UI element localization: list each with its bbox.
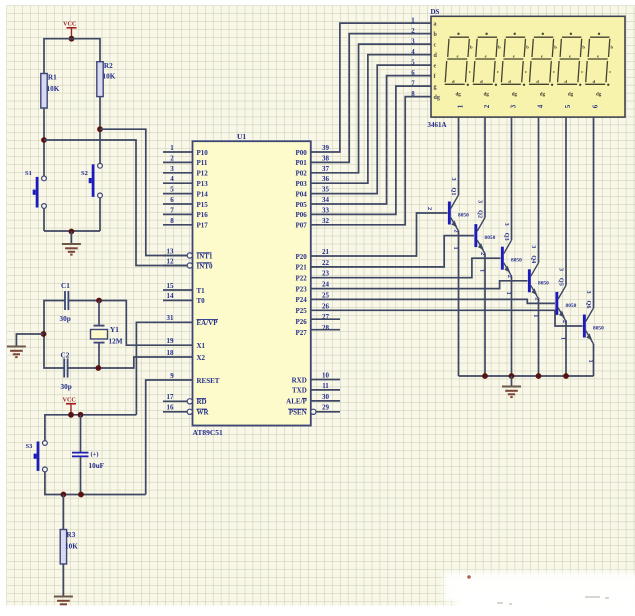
svg-text:8050: 8050 xyxy=(566,303,577,309)
svg-text:PSEN: PSEN xyxy=(289,409,307,417)
svg-text:6: 6 xyxy=(592,104,600,108)
wire P23 to Q4 base xyxy=(311,281,528,289)
svg-text:TXD: TXD xyxy=(292,387,307,395)
display digit 2 seven-segment glyph xyxy=(473,33,501,98)
junction dot switches ground node xyxy=(69,229,75,235)
IC U1 pin 9 RESET xyxy=(170,372,220,385)
svg-text:Q1: Q1 xyxy=(450,188,457,196)
svg-text:10K: 10K xyxy=(103,73,116,81)
svg-text:e: e xyxy=(569,54,571,59)
IC U1 pin 19 X1 xyxy=(167,337,206,350)
svg-text:P03: P03 xyxy=(296,180,308,188)
svg-text:39: 39 xyxy=(322,144,330,152)
wire P06 to display segment pin 7 xyxy=(311,86,431,214)
svg-text:d: d xyxy=(480,79,483,84)
svg-text:e: e xyxy=(457,54,459,59)
wire P01 to display segment pin 2 xyxy=(311,34,431,163)
display bottom common pins 1-6 rotated labels xyxy=(457,104,600,108)
svg-text:P13: P13 xyxy=(197,180,209,188)
junction dot emitter rail x=538.5 xyxy=(536,373,542,379)
svg-text:C1: C1 xyxy=(61,282,70,290)
svg-text:2: 2 xyxy=(426,207,433,210)
svg-text:29: 29 xyxy=(322,404,330,412)
wire VCC reset rail xyxy=(45,415,136,441)
svg-text:5: 5 xyxy=(564,104,572,108)
wire S2 bottom to ground rail xyxy=(99,198,101,231)
ground symbol left of crystal xyxy=(7,346,26,348)
svg-text:T0: T0 xyxy=(197,297,206,305)
svg-text:e: e xyxy=(434,63,437,69)
svg-text:b: b xyxy=(498,45,501,50)
wire P20 to Q1 base xyxy=(311,213,448,256)
svg-text:37: 37 xyxy=(322,165,330,173)
svg-text:b: b xyxy=(554,45,557,50)
IC U1 right pins P00-P07 xyxy=(296,144,330,230)
svg-text:P12: P12 xyxy=(197,170,209,178)
svg-text:30p: 30p xyxy=(60,315,71,323)
wire P22 to Q3 base xyxy=(311,258,501,278)
svg-text:4: 4 xyxy=(411,49,415,56)
svg-text:d: d xyxy=(564,79,567,84)
svg-text:17: 17 xyxy=(167,393,175,401)
wire RESET to bottom rail xyxy=(146,380,193,495)
svg-text:10: 10 xyxy=(322,372,330,380)
wire display pin 5 to Q5 collector xyxy=(565,117,567,285)
display DS 3461A body xyxy=(431,16,625,117)
svg-text:4: 4 xyxy=(170,175,174,183)
junction dot emitter rail x=566 xyxy=(563,373,569,379)
junction dot C3 bottom node xyxy=(78,492,84,498)
svg-text:R1: R1 xyxy=(48,74,57,82)
svg-text:c: c xyxy=(497,69,499,74)
wire display pin 2 to Q2 collector xyxy=(484,117,486,218)
svg-text:R3: R3 xyxy=(67,531,76,539)
wire Q1 emitter to ground rail xyxy=(458,231,460,376)
wire P24 to Q5 base xyxy=(311,299,555,303)
svg-text:P04: P04 xyxy=(296,190,308,198)
svg-text:14: 14 xyxy=(167,292,175,300)
wire P25 to Q6 base xyxy=(311,310,583,326)
svg-text:8050: 8050 xyxy=(593,326,604,332)
svg-text:Q5: Q5 xyxy=(558,278,565,286)
wire display pin 1 to Q1 collector xyxy=(458,117,460,195)
IC U1 right pins P20-P27 xyxy=(296,248,340,337)
wire Q2 emitter to ground rail xyxy=(484,254,486,376)
svg-text:c: c xyxy=(609,69,611,74)
svg-text:16: 16 xyxy=(167,404,175,412)
svg-text:P11: P11 xyxy=(197,159,208,167)
display digit 5 seven-segment glyph xyxy=(557,33,585,98)
wire rail to R3 xyxy=(62,495,64,530)
junction dot emitter rail x=511.5 xyxy=(509,373,515,379)
svg-text:2: 2 xyxy=(534,297,541,300)
svg-text:dg: dg xyxy=(596,93,602,98)
transistor Q4 8050 xyxy=(506,245,549,317)
svg-text:32: 32 xyxy=(322,217,330,225)
svg-text:AT89C51: AT89C51 xyxy=(193,428,224,437)
svg-text:c: c xyxy=(434,42,437,48)
svg-text:g: g xyxy=(434,84,437,90)
wire P21 to Q2 base xyxy=(311,236,474,267)
svg-text:Q4: Q4 xyxy=(530,255,537,263)
ground symbol under S1/S2 xyxy=(62,243,81,245)
wire Q4 emitter to ground rail xyxy=(538,299,540,376)
svg-text:b: b xyxy=(582,45,585,50)
svg-text:8050: 8050 xyxy=(485,235,496,241)
svg-text:Q3: Q3 xyxy=(503,233,510,241)
svg-text:S1: S1 xyxy=(25,170,32,177)
svg-text:8050: 8050 xyxy=(511,258,522,264)
display digit 6 seven-segment glyph xyxy=(585,33,613,98)
switch S1 xyxy=(42,176,47,181)
svg-text:3: 3 xyxy=(503,223,510,226)
svg-text:Q2: Q2 xyxy=(477,210,484,218)
svg-text:dg: dg xyxy=(456,93,462,98)
IC U1 pin 29 PSEN xyxy=(288,404,340,417)
svg-text:36: 36 xyxy=(322,175,330,183)
svg-text:b: b xyxy=(611,45,614,50)
svg-text:2: 2 xyxy=(170,154,174,162)
svg-text:22: 22 xyxy=(322,259,330,267)
svg-text:T1: T1 xyxy=(197,287,206,295)
svg-text:INT0: INT0 xyxy=(197,262,213,270)
IC U1 pin 10 RXD xyxy=(292,372,340,385)
IC U1 left pins P10-P17 xyxy=(163,144,208,230)
svg-text:21: 21 xyxy=(322,248,330,256)
svg-text:P16: P16 xyxy=(197,211,209,219)
svg-text:P10: P10 xyxy=(197,149,209,157)
svg-text:dg: dg xyxy=(568,93,574,98)
wire R1 bottom to S1 xyxy=(43,108,45,176)
wire stub rail to ground 4 xyxy=(511,376,513,386)
ground symbol under transistor rail xyxy=(502,386,521,388)
svg-text:R2: R2 xyxy=(104,62,113,70)
svg-text:P26: P26 xyxy=(296,318,308,326)
junction dot crystal bottom xyxy=(95,365,101,371)
wire switches ground rail xyxy=(44,230,100,232)
wire EA/VP to VCC rail xyxy=(136,322,192,415)
transistor Q6 8050 xyxy=(561,290,604,362)
wire node R2 to INT1 pin 13 xyxy=(100,129,187,255)
wire transistor emitter ground rail xyxy=(459,375,594,377)
svg-text:23: 23 xyxy=(322,270,330,278)
svg-text:c: c xyxy=(525,69,527,74)
svg-text:P14: P14 xyxy=(197,190,209,198)
svg-text:RD: RD xyxy=(197,398,207,406)
svg-text:30p: 30p xyxy=(61,383,72,391)
svg-text:Q6: Q6 xyxy=(585,301,592,309)
svg-text:e: e xyxy=(597,54,599,59)
junction dot C3 top node xyxy=(78,412,84,418)
svg-text:RXD: RXD xyxy=(292,376,307,384)
junction dot R3 node xyxy=(61,492,67,498)
svg-text:P07: P07 xyxy=(296,222,308,230)
svg-text:3: 3 xyxy=(477,200,484,203)
svg-text:2: 2 xyxy=(411,28,415,35)
junction dot crystal top xyxy=(96,298,102,304)
svg-text:X1: X1 xyxy=(197,342,206,350)
transistor Q5 8050 xyxy=(534,268,577,340)
svg-text:X2: X2 xyxy=(197,354,206,362)
svg-text:1: 1 xyxy=(170,144,174,152)
IC U1 pin 13 INT1 xyxy=(163,247,213,260)
svg-text:4: 4 xyxy=(537,104,545,108)
svg-text:10K: 10K xyxy=(65,543,78,551)
capacitor C3 10uF xyxy=(80,415,82,452)
capacitor C2 xyxy=(63,359,65,378)
svg-text:P05: P05 xyxy=(296,201,308,209)
junction dot VCC2 node xyxy=(68,412,74,418)
svg-text:P06: P06 xyxy=(296,211,308,219)
wire display pin 6 to Q6 collector xyxy=(593,117,595,308)
svg-text:1: 1 xyxy=(457,104,465,108)
wire node R1 to INT0 pin 12 xyxy=(44,140,187,266)
svg-text:e: e xyxy=(485,54,487,59)
svg-text:12M: 12M xyxy=(109,338,123,346)
display digit 3 seven-segment glyph xyxy=(501,33,529,98)
svg-text:S3: S3 xyxy=(26,443,34,450)
wire P05 to display segment pin 6 xyxy=(311,76,431,204)
display digit 4 seven-segment glyph xyxy=(529,33,557,98)
svg-text:38: 38 xyxy=(322,154,330,162)
wire Q3 emitter to ground rail xyxy=(511,276,513,376)
svg-text:13: 13 xyxy=(167,247,175,255)
svg-text:34: 34 xyxy=(322,196,330,204)
svg-text:S2: S2 xyxy=(81,170,88,177)
wire C2 to crystal bottom / X2 xyxy=(68,357,193,368)
svg-text:P02: P02 xyxy=(296,170,308,178)
junction dot crystal-gnd node xyxy=(41,331,47,337)
svg-text:8: 8 xyxy=(411,91,415,98)
display left pin numbers and segment letters xyxy=(411,17,440,101)
svg-text:P20: P20 xyxy=(296,253,308,261)
svg-text:3: 3 xyxy=(411,38,415,45)
capacitor C1 xyxy=(64,291,66,310)
svg-text:P00: P00 xyxy=(296,149,308,157)
svg-text:C2: C2 xyxy=(61,352,70,360)
wire VCC rail to R1 and R2 xyxy=(44,39,100,74)
svg-text:6: 6 xyxy=(170,196,174,204)
resistor R2 xyxy=(97,62,103,97)
svg-text:P24: P24 xyxy=(296,296,308,304)
svg-text:c: c xyxy=(553,69,555,74)
svg-text:8050: 8050 xyxy=(458,213,469,219)
svg-text:P22: P22 xyxy=(296,275,308,283)
svg-text:P17: P17 xyxy=(197,222,209,230)
svg-text:10K: 10K xyxy=(47,85,60,93)
svg-text:(+): (+) xyxy=(91,451,99,458)
wire Q5 emitter to ground rail xyxy=(565,321,567,376)
svg-text:RESET: RESET xyxy=(197,377,220,385)
wire crystal left vertical / top node xyxy=(44,301,65,369)
switch S3 xyxy=(43,441,48,446)
IC U1 pin 17 RD xyxy=(163,393,207,406)
svg-text:3: 3 xyxy=(558,268,565,271)
svg-text:2: 2 xyxy=(506,275,513,278)
wire P07 to display segment pin 8 xyxy=(311,97,431,225)
svg-text:d: d xyxy=(536,79,539,84)
svg-text:11: 11 xyxy=(322,382,329,390)
svg-text:10uF: 10uF xyxy=(89,462,105,470)
junction dot emitter rail x=485 xyxy=(482,373,488,379)
IC U1 pin 14 T0 xyxy=(163,292,205,305)
svg-text:2: 2 xyxy=(561,320,568,323)
svg-text:30: 30 xyxy=(322,393,330,401)
IC U1 pin 16 WR xyxy=(163,404,210,417)
svg-text:P21: P21 xyxy=(296,264,308,272)
transistor Q2 8050 xyxy=(453,200,496,272)
switch S2 xyxy=(98,163,103,168)
wire stub to ground 1 xyxy=(70,232,72,244)
wire P00 to display segment pin 1 xyxy=(311,23,431,152)
svg-text:26: 26 xyxy=(322,302,330,310)
wire R3 to ground 3 xyxy=(62,564,64,596)
svg-text:ALE/P: ALE/P xyxy=(286,398,307,406)
svg-text:3: 3 xyxy=(450,177,457,180)
IC U1 pin 30 ALE/P xyxy=(286,393,340,406)
svg-text:2: 2 xyxy=(483,104,491,108)
transistor Q3 8050 xyxy=(479,223,522,295)
svg-text:35: 35 xyxy=(322,186,330,194)
svg-text:28: 28 xyxy=(322,324,330,332)
svg-text:19: 19 xyxy=(167,337,175,345)
wire R2 bottom to S2 xyxy=(99,97,101,164)
svg-text:EA/VP: EA/VP xyxy=(197,319,219,327)
junction dot VCC node xyxy=(69,36,75,42)
svg-text:5: 5 xyxy=(170,186,174,194)
ground symbol under R3 xyxy=(54,596,73,598)
transistor Q1 8050 xyxy=(426,177,469,249)
svg-text:U1: U1 xyxy=(237,132,246,141)
IC U1 pin 11 TXD xyxy=(292,382,340,395)
junction dot node R1/S1/INT0 xyxy=(41,137,47,143)
svg-text:24: 24 xyxy=(322,281,330,289)
svg-text:7: 7 xyxy=(411,80,415,87)
svg-text:2: 2 xyxy=(453,230,460,233)
svg-text:d: d xyxy=(508,79,511,84)
svg-text:5: 5 xyxy=(411,59,415,66)
svg-text:P27: P27 xyxy=(296,329,308,337)
svg-text:7: 7 xyxy=(170,206,174,214)
svg-text:12: 12 xyxy=(167,257,175,265)
svg-text:P25: P25 xyxy=(296,307,308,315)
svg-text:dg: dg xyxy=(512,93,518,98)
resistor R3 xyxy=(60,530,66,565)
IC U1 AT89C51 body xyxy=(193,141,311,425)
wire display pin 4 to Q4 collector xyxy=(538,117,540,263)
crystal Y1 12M xyxy=(98,301,100,325)
wire P03 to display segment pin 4 xyxy=(311,55,431,184)
svg-text:33: 33 xyxy=(322,206,330,214)
svg-text:3: 3 xyxy=(170,165,174,173)
wire Q6 emitter to ground rail xyxy=(593,344,595,376)
svg-text:b: b xyxy=(526,45,529,50)
svg-text:Y1: Y1 xyxy=(110,326,119,334)
svg-text:15: 15 xyxy=(167,282,175,290)
svg-text:DS: DS xyxy=(431,8,440,16)
svg-text:d: d xyxy=(593,79,596,84)
svg-text:31: 31 xyxy=(167,314,175,322)
svg-text:18: 18 xyxy=(167,349,175,357)
resistor R1 xyxy=(41,74,47,109)
svg-text:VCC: VCC xyxy=(63,397,76,404)
svg-text:3: 3 xyxy=(585,290,592,293)
wire S3 bottom rail xyxy=(45,472,146,495)
svg-text:VCC: VCC xyxy=(63,21,76,28)
svg-text:c: c xyxy=(581,69,583,74)
svg-text:e: e xyxy=(513,54,515,59)
svg-text:P15: P15 xyxy=(197,201,209,209)
svg-text:b: b xyxy=(470,45,473,50)
wire P02 to display segment pin 3 xyxy=(311,44,431,173)
svg-text:d: d xyxy=(452,79,455,84)
svg-text:INT1: INT1 xyxy=(197,252,213,260)
wire S1 bottom to ground rail xyxy=(43,208,45,231)
svg-text:dg: dg xyxy=(434,95,440,101)
wire C1 to crystal top / X1 xyxy=(68,301,192,346)
junction dot node R2/S2/INT1 xyxy=(97,126,103,132)
svg-text:dg: dg xyxy=(484,93,490,98)
svg-text:6: 6 xyxy=(411,70,415,77)
IC U1 pin 31 EA/VP xyxy=(167,314,219,327)
svg-text:c: c xyxy=(469,69,471,74)
svg-text:P01: P01 xyxy=(296,159,308,167)
wire P04 to display segment pin 5 xyxy=(311,65,431,194)
IC U1 pin 18 X2 xyxy=(167,349,206,362)
svg-text:3: 3 xyxy=(510,104,518,108)
svg-text:2: 2 xyxy=(479,252,486,255)
svg-text:8050: 8050 xyxy=(538,280,549,286)
IC U1 pin 15 T1 xyxy=(163,282,205,295)
watermark blob xyxy=(444,573,635,616)
svg-text:8: 8 xyxy=(170,217,174,225)
svg-text:WR: WR xyxy=(197,409,210,417)
svg-text:dg: dg xyxy=(540,93,546,98)
svg-text:25: 25 xyxy=(322,291,330,299)
svg-text:3: 3 xyxy=(530,245,537,248)
IC U1 pin 12 INT0 xyxy=(163,257,213,270)
svg-text:1: 1 xyxy=(411,17,415,24)
svg-text:3461A: 3461A xyxy=(428,121,447,129)
wire to ground 2 xyxy=(16,334,43,346)
display digit 1 seven-segment glyph xyxy=(445,33,473,98)
wire display pin 3 to Q3 collector xyxy=(511,117,513,240)
svg-text:a: a xyxy=(434,21,437,27)
svg-text:e: e xyxy=(541,54,543,59)
svg-text:9: 9 xyxy=(170,372,174,380)
svg-text:P23: P23 xyxy=(296,285,308,293)
